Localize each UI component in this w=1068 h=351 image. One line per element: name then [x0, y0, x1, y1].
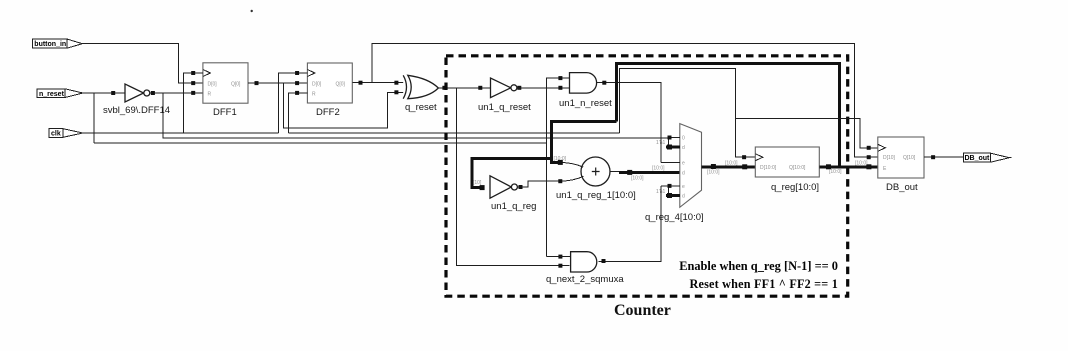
node DFF1 clk	[191, 71, 195, 75]
wire DFF2 clk riser	[278, 73, 307, 133]
thick bus mid	[552, 122, 617, 163]
wire n_reset to inverter	[83, 92, 126, 94]
svg-text:e: e	[682, 160, 685, 166]
node adder out	[627, 170, 632, 175]
svg-text:d: d	[682, 170, 685, 176]
wire DFF2 Q up over to DB_out D	[372, 44, 878, 158]
node n_reset-inv input	[111, 91, 115, 95]
svg-text:D[10]: D[10]	[883, 155, 896, 161]
wire DFF1 clk riser	[184, 73, 203, 133]
node DFF1 D	[191, 81, 195, 85]
svg-text:[10]: [10]	[473, 180, 482, 186]
adder un1_q_reg_1	[556, 157, 636, 201]
wire q_reset down to q_next AND	[456, 88, 569, 266]
inverter svbl_69\.DFF14	[103, 84, 170, 116]
node q_next in2	[558, 264, 562, 268]
node q_next in1	[558, 255, 562, 259]
node q_reg clk	[742, 155, 746, 159]
svg-text:DB_out: DB_out	[886, 182, 918, 193]
node adder in2	[558, 179, 562, 183]
svg-text:D[0]: D[0]	[208, 81, 218, 87]
svg-text:R: R	[312, 92, 316, 98]
svg-text:R: R	[208, 92, 212, 98]
wire mux pin5 stub	[661, 186, 680, 196]
svg-text:Enable when q_reg [N-1] == 0: Enable when q_reg [N-1] == 0	[679, 259, 838, 273]
node adder in1	[558, 160, 563, 165]
svg-text:[10:0]: [10:0]	[725, 161, 738, 167]
node DB_out clk	[867, 146, 871, 150]
thick bus top	[616, 64, 839, 167]
node un1_q_reset in	[478, 86, 482, 90]
node DFF2 D	[295, 81, 299, 85]
node q_reset out	[442, 86, 446, 90]
wire un1_q_reset out to AND	[517, 87, 570, 89]
wire button_in to DFF1 D	[82, 44, 203, 83]
node DB_out E	[866, 164, 871, 169]
wire clk spur to DB_out	[735, 118, 877, 148]
wire mux pin2 stub	[666, 146, 680, 149]
wire q_next out to mux	[599, 186, 661, 262]
svg-text:[10:0]: [10:0]	[707, 170, 720, 176]
wire clk rail	[83, 132, 279, 134]
wire rail reset-clk segment	[288, 132, 619, 134]
pin labels mux inner	[682, 136, 685, 200]
svg-text:Reset when FF1 ^ FF2 == 1: Reset when FF1 ^ FF2 == 1	[689, 277, 838, 291]
node mux out	[711, 164, 716, 169]
svg-text:button_in: button_in	[34, 41, 66, 48]
thick bus to un1_q_reg	[472, 159, 552, 188]
svg-text:DB_out: DB_out	[965, 155, 991, 162]
svg-text:0: 0	[682, 136, 685, 142]
wire inverter out to DFF1 R	[149, 92, 203, 94]
DFF2	[307, 63, 352, 118]
svg-text:[10:0]: [10:0]	[829, 169, 842, 175]
node mux pin2	[667, 145, 672, 150]
node AND in1	[558, 76, 562, 80]
wire mux pin1 stub	[669, 138, 680, 148]
svg-text:Q[0]: Q[0]	[231, 81, 241, 87]
bus mux out to q_reg D	[702, 165, 756, 168]
svg-text:[10:0]: [10:0]	[631, 176, 644, 182]
svg-text:un1_n_reset: un1_n_reset	[559, 98, 612, 109]
svg-text:[10:0]: [10:0]	[855, 161, 868, 167]
DFF1	[203, 63, 248, 118]
xor gate q_reset	[403, 75, 438, 113]
output port DB_out	[964, 153, 1012, 162]
svg-text:q_reset: q_reset	[405, 102, 437, 113]
register DB_out	[878, 137, 924, 193]
node AND out	[602, 81, 606, 85]
wire mux pin6 stub	[666, 194, 680, 197]
wire q_next in1 stub	[547, 256, 571, 258]
inverter un1_q_reg	[490, 176, 536, 212]
and gate un1_n_reset	[559, 73, 612, 109]
node DFF1 Q	[255, 81, 259, 85]
node q_next out	[602, 259, 606, 263]
input port button_in	[32, 39, 82, 48]
wire adder in2 curve	[560, 176, 583, 181]
svg-text:d: d	[682, 145, 685, 151]
stray dot	[251, 10, 253, 12]
input port clk	[49, 129, 83, 138]
node DB_out Q	[931, 155, 935, 159]
node q_reg Q	[826, 164, 831, 169]
node DB_out D	[867, 155, 871, 159]
node XOR in2	[394, 90, 398, 94]
node mux pin5	[668, 184, 672, 188]
node inv out	[151, 91, 155, 95]
svg-text:Q[10]: Q[10]	[903, 155, 916, 161]
wire un1_q_reg out to adder	[517, 181, 560, 187]
node q_reg D	[742, 164, 747, 169]
svg-text:D[10:0]: D[10:0]	[760, 165, 777, 171]
wire mux pin3 stub	[661, 161, 680, 163]
node XOR in1	[394, 81, 398, 85]
svg-text:DFF1: DFF1	[213, 107, 237, 118]
bus q_reg Q to DB_out	[819, 165, 878, 168]
wire rail inverter out	[163, 93, 668, 138]
svg-text:[10:0]: [10:0]	[652, 166, 665, 172]
bus adder out	[619, 171, 680, 174]
svg-text:q_next_2_sqmuxa: q_next_2_sqmuxa	[546, 274, 624, 285]
svg-text:un1_q_reg: un1_q_reg	[491, 201, 536, 212]
wire XOR out to inverter	[438, 87, 491, 89]
wire AND out to mux selects	[597, 83, 661, 163]
node mux pin1	[668, 136, 672, 140]
wire DFF1 Q branch down to XOR	[284, 83, 405, 128]
wire DB_out Q to port	[924, 156, 964, 158]
svg-text:DFF2: DFF2	[316, 107, 340, 118]
node un1_q_reset out	[517, 86, 521, 90]
svg-text:q_reg_4[10:0]: q_reg_4[10:0]	[645, 212, 704, 223]
wire rail n_reset long	[94, 142, 547, 144]
node un1_q_reg out	[519, 185, 523, 189]
node AND in2	[558, 86, 562, 90]
svg-text:D[0]: D[0]	[312, 81, 322, 87]
wire counter clk riser	[620, 68, 756, 157]
wire n_reset riser to AND in1	[547, 78, 570, 257]
node DFF2 Q	[359, 81, 363, 85]
inverter un1_q_reset	[478, 78, 531, 113]
svg-text:n_reset: n_reset	[39, 91, 65, 98]
svg-text:un1_q_reset: un1_q_reset	[478, 102, 531, 113]
svg-text:d: d	[682, 194, 685, 200]
wire adder in1 curve	[560, 162, 583, 167]
svg-text:un1_q_reg_1[10:0]: un1_q_reg_1[10:0]	[556, 190, 636, 201]
svg-text:Q[0]: Q[0]	[336, 81, 346, 87]
wire adder out to mux	[610, 171, 620, 173]
svg-text:1'h1: 1'h1	[656, 189, 666, 195]
mux q_reg_4	[645, 124, 704, 223]
wire DFF2 Q to XOR	[352, 82, 405, 84]
node un1_q_reg in	[480, 185, 485, 190]
node DFF2 R	[295, 91, 299, 95]
wire DFF2 R riser	[288, 93, 307, 133]
svg-text:svbl_69\.DFF14: svbl_69\.DFF14	[103, 105, 170, 116]
svg-text:clk: clk	[51, 131, 61, 138]
node mux pin6	[667, 193, 672, 198]
svg-text:1'h1: 1'h1	[656, 140, 666, 146]
svg-text:Counter: Counter	[614, 302, 671, 319]
node DFF1 R	[191, 91, 195, 95]
svg-text:Q[10:0]: Q[10:0]	[789, 165, 806, 171]
svg-text:e: e	[682, 184, 685, 190]
and gate q_next_2_sqmuxa	[546, 252, 624, 285]
counter dashed box	[446, 56, 848, 296]
register q_reg	[755, 147, 819, 193]
wire DFF1 Q to DFF2 D	[248, 82, 307, 84]
svg-text:q_reg[10:0]: q_reg[10:0]	[771, 182, 819, 193]
input port n_reset	[37, 89, 83, 98]
node DFF2 clk	[295, 71, 299, 75]
wire n_reset branch down	[93, 93, 95, 143]
